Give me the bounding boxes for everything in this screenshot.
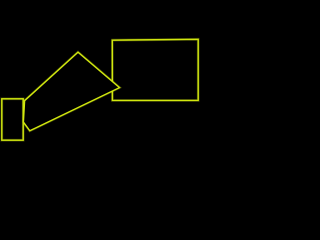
- large rectangle (right): [112, 39, 198, 100]
- small rectangle (left): [2, 99, 23, 140]
- rotated polygon shape (center, black-filled, on top): [23, 52, 119, 131]
- canvas background: [0, 0, 200, 165]
